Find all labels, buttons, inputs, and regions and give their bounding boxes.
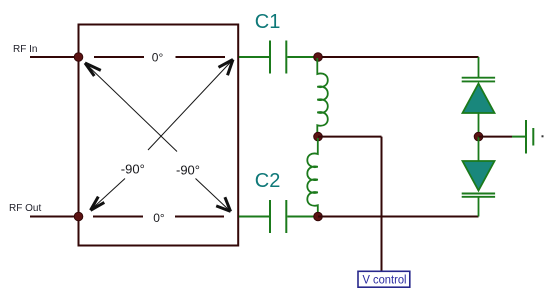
wire node D to bypass capacitor [479, 136, 513, 138]
arrowhead top-right [219, 60, 234, 76]
wire 0deg bottom path dashes [93, 216, 224, 218]
coupling arrow line B (bottom-left to top-right) [92, 60, 233, 209]
svg-text:-90°: -90° [121, 161, 145, 176]
wire RF In stub [30, 56, 77, 58]
svg-text:0°: 0° [153, 211, 165, 225]
node C junction bottom [314, 212, 323, 221]
wire node A to varactor corner [318, 56, 479, 58]
varactor diode D1 [462, 57, 495, 137]
capacitor C2 [239, 200, 315, 233]
arrowhead top-left [85, 63, 101, 76]
node RF Out junction [74, 212, 83, 221]
wire bottom from node C to varactor corner [318, 216, 479, 218]
arrowhead bottom-right [216, 197, 230, 211]
wire V control horizontal [318, 136, 382, 138]
wire RF Out stub [30, 216, 77, 218]
svg-text:0°: 0° [152, 51, 164, 65]
stray mark right edge [542, 135, 544, 137]
svg-text:RF Out: RF Out [9, 203, 41, 214]
node D junction [474, 132, 483, 141]
svg-text:V control: V control [363, 274, 407, 286]
svg-text:C1: C1 [255, 11, 281, 33]
svg-text:C2: C2 [255, 170, 281, 192]
node B junction [314, 132, 323, 141]
hybrid coupler box U1 [79, 25, 239, 246]
varactor diode D2 [462, 137, 495, 217]
arrowhead bottom-left [91, 197, 105, 211]
coupling arrow line A (top-left to bottom-right) [85, 63, 229, 210]
label V control box [358, 271, 410, 287]
inductor L2 [307, 138, 318, 216]
capacitor C3 bypass [512, 120, 533, 154]
wire V control vertical [381, 137, 383, 272]
node A junction [314, 53, 323, 62]
capacitor C1 [239, 41, 315, 74]
svg-text:-90°: -90° [176, 163, 200, 178]
svg-text:RF In: RF In [13, 44, 37, 55]
node RF In junction [74, 53, 83, 62]
wire 0deg top path dashes [94, 56, 225, 58]
inductor L1 [317, 58, 328, 136]
